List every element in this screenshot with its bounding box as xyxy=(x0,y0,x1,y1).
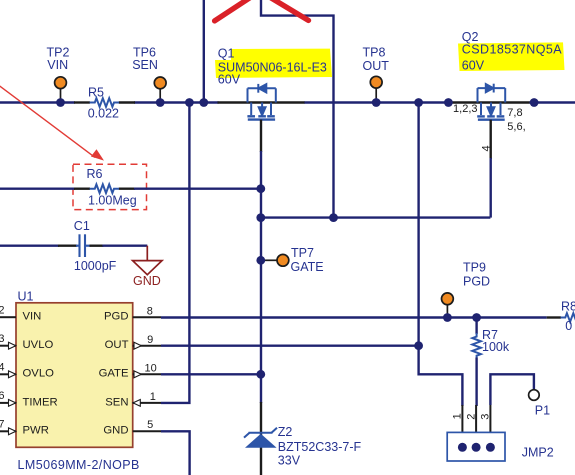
svg-text:3: 3 xyxy=(480,414,492,420)
svg-text:7: 7 xyxy=(0,419,5,431)
svg-text:PWR: PWR xyxy=(23,425,49,437)
test point TP7 xyxy=(261,254,289,266)
svg-text:C1: C1 xyxy=(74,219,90,233)
svg-text:SEN: SEN xyxy=(132,58,158,72)
test point TP6 xyxy=(154,77,166,103)
svg-text:100k: 100k xyxy=(482,340,510,354)
svg-text:R8: R8 xyxy=(561,300,575,314)
svg-text:60V: 60V xyxy=(462,58,485,72)
svg-text:10: 10 xyxy=(145,363,157,375)
wire: gate net horizontal y=217.6 xyxy=(261,216,491,218)
wire: black pin segments on main rail xyxy=(74,101,530,103)
wire: vertical OUT drop x=418.6 xyxy=(419,103,463,407)
wire: PGD net y=317.5 xyxy=(161,316,547,318)
zener Z2 xyxy=(244,428,277,448)
svg-text:3: 3 xyxy=(0,333,5,345)
wire: R6 net y=188.7 xyxy=(0,187,261,189)
highlight over Q1 label xyxy=(215,49,332,78)
wire: OUT net y=345.7 xyxy=(161,345,419,347)
highlight over Q2 label xyxy=(458,42,565,71)
svg-text:GND: GND xyxy=(133,274,161,288)
svg-text:1.00Meg: 1.00Meg xyxy=(88,194,137,208)
svg-text:R6: R6 xyxy=(87,167,103,181)
zener Z2 lead (black) xyxy=(260,402,262,475)
transistor Q2 xyxy=(477,84,505,120)
test point TP8 xyxy=(370,76,382,102)
svg-text:5: 5 xyxy=(147,419,153,431)
svg-text:VIN: VIN xyxy=(47,58,68,72)
svg-text:5,6,: 5,6, xyxy=(507,121,525,133)
svg-text:Z2: Z2 xyxy=(278,425,293,439)
resistor R8 (cut at edge) xyxy=(561,313,575,322)
svg-text:TP7: TP7 xyxy=(291,246,314,260)
svg-text:VIN: VIN xyxy=(23,311,42,323)
U1 left pin numbers (cut at edge) xyxy=(0,305,5,431)
U1 pin names xyxy=(23,311,129,437)
wire: vertical to crossed-out component (x=203.8) xyxy=(203,0,205,103)
U1 left pin stubs xyxy=(0,317,16,431)
svg-text:1: 1 xyxy=(452,413,464,419)
U1 right pin stubs xyxy=(133,317,161,431)
svg-text:CSD18537NQ5A: CSD18537NQ5A xyxy=(462,43,562,57)
resistor R6 xyxy=(90,184,119,193)
svg-text:8: 8 xyxy=(147,306,153,318)
wire: elbow from crossed-out component to gate net (x=261 to x=333.5) xyxy=(261,0,334,218)
connector JMP2 xyxy=(447,405,505,461)
svg-text:Q1: Q1 xyxy=(218,46,235,60)
svg-text:2: 2 xyxy=(465,414,477,420)
svg-text:4: 4 xyxy=(0,362,5,374)
svg-text:6: 6 xyxy=(0,390,5,402)
svg-text:1: 1 xyxy=(150,391,156,403)
U1 input arrows left xyxy=(9,342,16,434)
wire: C1 net y=245.7 xyxy=(0,244,147,246)
red crossed-out mark (X) over removed component xyxy=(215,0,309,21)
wire: main VIN/OUT rail y=102.5 (navy segments) xyxy=(0,101,575,103)
wire: GATE net y=374.3 xyxy=(161,373,261,375)
svg-text:BZT52C33-7-F: BZT52C33-7-F xyxy=(278,440,362,454)
wire: JMP2 pin3 to P1 xyxy=(490,374,534,405)
red annotation arrow pointing to R6 xyxy=(0,83,104,160)
U1 right pin numbers xyxy=(145,306,157,432)
svg-text:JMP2: JMP2 xyxy=(522,446,554,460)
svg-text:UVLO: UVLO xyxy=(23,339,54,351)
red dashed emphasis box around R6 xyxy=(73,164,147,209)
svg-text:U1: U1 xyxy=(18,289,34,303)
test point TP2 xyxy=(55,77,67,103)
svg-text:R5: R5 xyxy=(88,85,104,99)
svg-text:GND: GND xyxy=(103,425,128,437)
svg-text:OUT: OUT xyxy=(105,339,129,351)
svg-text:GATE: GATE xyxy=(99,368,129,380)
svg-text:60V: 60V xyxy=(218,72,241,86)
U1 input arrow SEN xyxy=(133,400,140,407)
ground GND symbol xyxy=(133,246,162,275)
svg-text:GATE: GATE xyxy=(291,260,324,274)
svg-text:PGD: PGD xyxy=(463,275,490,289)
resistor R5 xyxy=(90,98,119,107)
svg-text:33V: 33V xyxy=(278,454,301,468)
test point TP9 xyxy=(442,293,454,318)
svg-text:SEN: SEN xyxy=(105,396,128,408)
wire: SEN vertical x=189.4 xyxy=(161,103,189,403)
svg-text:OVLO: OVLO xyxy=(23,368,55,380)
svg-text:7,8: 7,8 xyxy=(507,107,522,119)
svg-text:TIMER: TIMER xyxy=(23,396,58,408)
wire: Q1 gate lead down x=261 xyxy=(260,120,262,152)
wire: GND net pin 5 xyxy=(161,431,190,475)
svg-text:TP9: TP9 xyxy=(463,261,486,275)
transistor Q1 (pass FET) xyxy=(247,84,275,120)
svg-text:0: 0 xyxy=(565,319,572,333)
JMP2 pin numbers 1 2 3 xyxy=(452,413,492,420)
IC U1 xyxy=(16,303,133,448)
wire: Q2 gate lead down then left xyxy=(490,120,492,159)
svg-text:OUT: OUT xyxy=(363,59,390,73)
svg-text:P1: P1 xyxy=(535,404,550,418)
connector P1 xyxy=(529,390,540,401)
svg-text:2: 2 xyxy=(0,305,5,317)
svg-text:0.022: 0.022 xyxy=(88,106,119,120)
svg-text:1,2,3: 1,2,3 xyxy=(453,103,477,115)
svg-text:PGD: PGD xyxy=(104,311,128,323)
svg-text:1000pF: 1000pF xyxy=(74,259,117,273)
capacitor C1 xyxy=(80,234,86,257)
svg-text:LM5069MM-2/NOPB: LM5069MM-2/NOPB xyxy=(18,458,140,472)
resistor R7 xyxy=(475,318,477,335)
svg-text:9: 9 xyxy=(147,334,153,346)
U1 output arrows right (OUT, GATE) xyxy=(134,342,141,377)
svg-text:TP8: TP8 xyxy=(363,46,386,60)
